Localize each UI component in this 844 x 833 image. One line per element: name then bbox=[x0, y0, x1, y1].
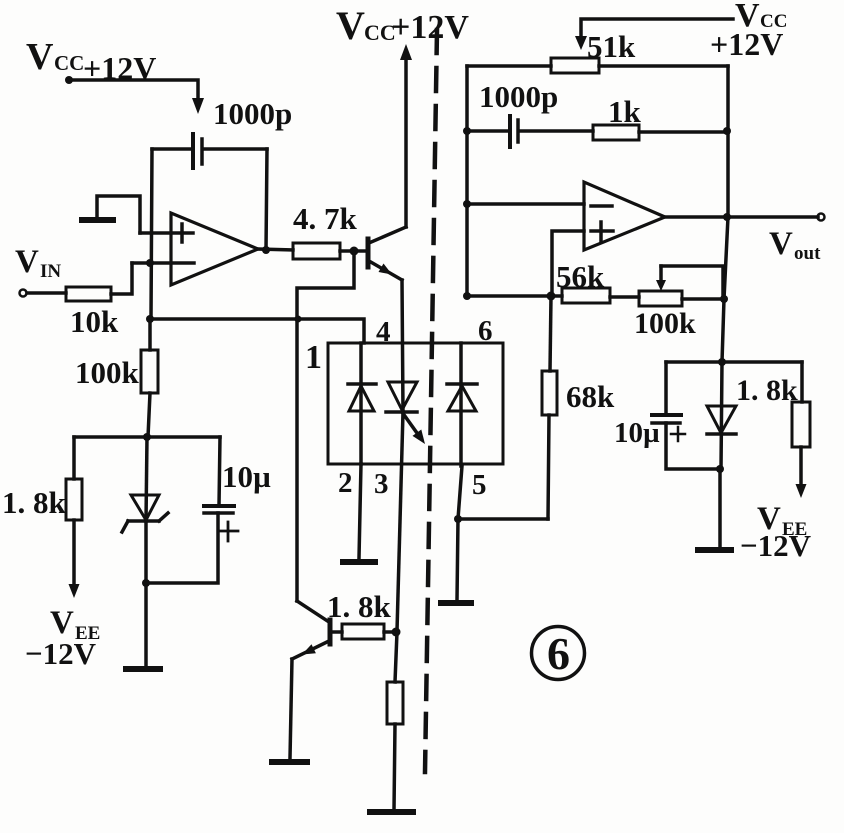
transistor Q2 bbox=[292, 601, 330, 659]
net label VCC (top right) bbox=[735, 0, 787, 34]
pin label 2 bbox=[338, 467, 353, 499]
zener diode D1 bbox=[122, 495, 168, 532]
net label VEE (lower left) bbox=[50, 605, 100, 644]
terminal Vout bbox=[818, 214, 825, 221]
plus sign U1 bbox=[180, 224, 184, 242]
circled figure number 6 bbox=[532, 627, 585, 680]
ground (Q2 emitter) bbox=[272, 759, 307, 765]
resistor 56k bbox=[467, 288, 639, 303]
svg-text:−12V: −12V bbox=[740, 528, 812, 563]
capacitor C1 1000p bbox=[193, 134, 202, 168]
node 1k/output bus bbox=[723, 127, 731, 135]
node crossing dot bbox=[295, 316, 302, 323]
node 1.8k / pin3 junction bbox=[392, 628, 401, 637]
svg-text:+12V: +12V bbox=[391, 9, 469, 46]
net label VEE (right) bbox=[757, 501, 807, 540]
svg-text:1000p: 1000p bbox=[479, 79, 558, 114]
wire U1 non-inverting input bbox=[140, 231, 193, 235]
svg-text:2: 2 bbox=[338, 467, 353, 499]
svg-text:6: 6 bbox=[547, 628, 570, 679]
resistor 10k bbox=[66, 287, 111, 301]
svg-text:IN: IN bbox=[40, 261, 61, 282]
wire U1 inverting input bbox=[132, 261, 194, 265]
svg-text:10k: 10k bbox=[70, 304, 119, 339]
net label -12V (lower left) bbox=[25, 636, 97, 671]
wire clamp top rail bbox=[666, 360, 802, 364]
wire cap C1 right lead bbox=[204, 147, 267, 151]
polarity plus (right 10u) bbox=[671, 427, 685, 441]
wire bias top rail bbox=[74, 435, 220, 439]
resistor 68k bbox=[542, 296, 557, 519]
wire right vertical (output bus) bbox=[722, 66, 728, 362]
wire U2 inverting input bbox=[467, 202, 584, 206]
wire cap 10u top lead bbox=[219, 437, 220, 506]
value label 10u (left) bbox=[222, 459, 271, 494]
capacitor 10u (left) bbox=[204, 506, 234, 513]
svg-text:V: V bbox=[336, 3, 365, 48]
wire VIN to R 10k bbox=[27, 291, 66, 295]
net label -12V (right) bbox=[740, 528, 812, 563]
wire U1 output bbox=[258, 249, 293, 250]
plus sign U2 bbox=[591, 222, 613, 241]
svg-text:3: 3 bbox=[374, 468, 389, 500]
minus sign U2 bbox=[591, 204, 612, 208]
node output / cap junction bbox=[262, 246, 270, 254]
resistor 1.8k (right) bbox=[792, 362, 810, 486]
node clamp top junction bbox=[718, 358, 726, 366]
wire U2 output bbox=[665, 215, 818, 219]
wire 68k bottom to pin5 node bbox=[458, 517, 548, 521]
pin label 6 bbox=[478, 315, 493, 347]
value label 1.8k (middle) bbox=[327, 589, 392, 624]
svg-text:68k: 68k bbox=[566, 379, 615, 414]
wire VCC rail top-left bbox=[69, 80, 198, 100]
op-amp U2 bbox=[584, 182, 665, 250]
LED D3 (pins 4-3) bbox=[386, 382, 425, 444]
wire node to ground bbox=[144, 583, 148, 666]
svg-text:V: V bbox=[26, 36, 54, 78]
supply arrow VEE (right, down) bbox=[796, 484, 807, 498]
svg-text:+12V: +12V bbox=[710, 26, 783, 62]
wire cap C1 left lead bbox=[152, 147, 190, 151]
diode D5 bbox=[707, 362, 736, 469]
value label 10u (right) bbox=[614, 417, 660, 449]
pin label 3 bbox=[374, 468, 389, 500]
svg-text:1. 8k: 1. 8k bbox=[2, 485, 67, 520]
svg-text:V: V bbox=[769, 226, 793, 262]
pin label 1 bbox=[305, 339, 322, 376]
node U2 minus junction bbox=[463, 200, 471, 208]
value label 51k bbox=[587, 29, 636, 64]
svg-text:V: V bbox=[15, 244, 39, 280]
resistor 100k bbox=[141, 319, 158, 437]
wire pin 5 down bbox=[458, 466, 462, 519]
node 68k top junction bbox=[547, 292, 556, 301]
svg-text:CC: CC bbox=[54, 51, 84, 75]
wire Q2 emitter to ground bbox=[290, 659, 292, 758]
svg-text:1: 1 bbox=[305, 339, 322, 376]
value label 1.8k (lower left) bbox=[2, 485, 67, 520]
value label 1.8k (right) bbox=[736, 374, 798, 407]
pin label 5 bbox=[472, 469, 487, 501]
wire zener cathode to node bbox=[144, 521, 148, 583]
wire Q1 emitter down to LED bbox=[402, 280, 403, 412]
wire pin5 node to ground bbox=[457, 519, 458, 600]
node pot/output bus bbox=[720, 295, 728, 303]
wire cap 10u bottom lead bbox=[146, 513, 218, 583]
value label 4.7k bbox=[293, 201, 358, 236]
supply arrow VCC (top right, down) bbox=[575, 36, 587, 50]
svg-text:4: 4 bbox=[376, 316, 391, 348]
svg-text:10µ: 10µ bbox=[614, 417, 660, 449]
resistor 4.7k bbox=[293, 243, 366, 259]
ground (zener branch) bbox=[126, 666, 160, 672]
IC package (photocoupler) bbox=[328, 343, 503, 464]
wire 10k to inverting input bbox=[111, 263, 132, 294]
value label 1000p (right) bbox=[479, 79, 558, 114]
wire left vertical (inverting bus) bbox=[465, 66, 469, 296]
ground (pin 2) bbox=[343, 559, 375, 565]
terminal VIN bbox=[20, 290, 27, 297]
resistor 51k bbox=[467, 58, 728, 73]
diode D4 (pins 6-5) bbox=[447, 343, 477, 466]
wire pin 2 to ground bbox=[359, 464, 361, 558]
svg-text:10µ: 10µ bbox=[222, 459, 271, 494]
svg-text:100k: 100k bbox=[634, 307, 696, 340]
svg-text:56k: 56k bbox=[556, 259, 605, 294]
ground (pin 5) bbox=[441, 600, 471, 606]
svg-text:5: 5 bbox=[472, 469, 487, 501]
capacitor 10u (right) bbox=[652, 362, 720, 469]
ground (U1 + input) bbox=[82, 196, 140, 233]
ground (clamp) bbox=[698, 547, 731, 553]
svg-text:100k: 100k bbox=[75, 355, 140, 390]
node clamp bottom junction bbox=[716, 465, 724, 473]
net label VCC +12V (top middle) bbox=[336, 3, 469, 48]
svg-text:6: 6 bbox=[478, 315, 493, 347]
value label 100k (right) bbox=[634, 307, 696, 340]
svg-text:1. 8k: 1. 8k bbox=[736, 374, 798, 407]
node 1000p junction bbox=[463, 127, 471, 135]
svg-text:1. 8k: 1. 8k bbox=[327, 589, 392, 624]
value label 56k bbox=[556, 259, 605, 294]
net label +12V (top left) bbox=[83, 50, 156, 86]
wire pin 3 down bbox=[397, 412, 403, 631]
supply arrow VCC (top left, down) bbox=[192, 98, 204, 114]
svg-text:4. 7k: 4. 7k bbox=[293, 201, 358, 236]
net label VIN bbox=[15, 244, 61, 282]
node Q1 base junction bbox=[350, 247, 359, 256]
supply arrow VCC (top middle, up) bbox=[400, 44, 412, 60]
wire feedback left vertical bbox=[151, 149, 152, 319]
value label 1000p bbox=[213, 96, 292, 131]
diode D2 (pins 4-2) bbox=[348, 343, 376, 464]
wire zener anode bbox=[146, 437, 147, 521]
potentiometer 100k bbox=[639, 266, 724, 306]
node zener bottom junction bbox=[142, 579, 150, 587]
transistor Q1 bbox=[368, 227, 406, 280]
net label Vout bbox=[769, 226, 821, 264]
node inverting input junction bbox=[146, 259, 154, 267]
node feedback/100k junction bbox=[146, 315, 154, 323]
node 56k left junction bbox=[463, 292, 471, 300]
node output junction bbox=[723, 213, 731, 221]
svg-text:−12V: −12V bbox=[25, 636, 97, 671]
wire node to package pin 4 bbox=[150, 319, 364, 343]
supply arrow VEE (lower left, down) bbox=[69, 584, 80, 598]
value label 10k bbox=[70, 304, 119, 339]
wire VCC rail top-right bbox=[581, 19, 733, 38]
svg-text:out: out bbox=[794, 243, 821, 264]
net label +12V (top right) bbox=[710, 26, 783, 62]
pin label 4 bbox=[376, 316, 391, 348]
node zener top junction bbox=[143, 433, 151, 441]
wire cap 1000p left lead bbox=[467, 129, 508, 133]
net label VCC (top left) bbox=[26, 36, 84, 78]
polarity plus (left 10u) bbox=[220, 522, 238, 541]
wire Q1 base to Q2 collector bbox=[297, 251, 354, 601]
value label 100k bbox=[75, 355, 140, 390]
svg-text:51k: 51k bbox=[587, 29, 636, 64]
resistor 1k bbox=[520, 125, 728, 140]
resistor 1.8k (lower left) bbox=[66, 437, 82, 586]
wire clamp bottom to ground bbox=[718, 469, 722, 547]
resistor (bottom middle) bbox=[387, 632, 403, 810]
resistor 1.8k (middle) bbox=[332, 624, 397, 639]
wire U2 non-inverting input bbox=[552, 231, 584, 296]
wire Q1 collector to VCC bbox=[404, 58, 408, 227]
dashed boundary line bbox=[425, 30, 437, 772]
value label 68k bbox=[566, 379, 615, 414]
wire cap C1 right vertical to output bbox=[266, 149, 267, 250]
op-amp U1 bbox=[171, 213, 258, 285]
capacitor 1000p (right) bbox=[510, 116, 518, 147]
node pin5 junction bbox=[454, 515, 462, 523]
ground (bottom middle) bbox=[370, 809, 413, 815]
svg-text:1k: 1k bbox=[608, 94, 642, 129]
node VCC terminal dot bbox=[65, 76, 73, 84]
svg-text:1000p: 1000p bbox=[213, 96, 292, 131]
value label 1k bbox=[608, 94, 642, 129]
